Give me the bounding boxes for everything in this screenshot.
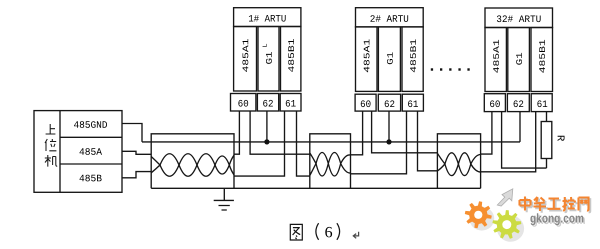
watermark arrow	[497, 189, 513, 206]
watermark text gkong.com	[530, 213, 583, 225]
text terminal 60 (ARTU2)	[361, 100, 371, 107]
caption （6）	[316, 223, 340, 240]
ARTU32 pin 60 left wire	[481, 112, 492, 155]
text terminal 62 (ARTU32)	[514, 100, 524, 107]
ellipsis dots between ARTU2 and ARTU32	[431, 68, 470, 70]
watermark text shadow 中华工控网	[521, 198, 590, 213]
wire shield bus bottom	[151, 187, 480, 189]
text header 2# ARTU	[370, 15, 408, 22]
vertical text 位 (host)	[45, 139, 56, 151]
caption return mark	[353, 232, 358, 239]
ARTU32 label cell 485B1	[531, 28, 553, 92]
watermark text 网	[579, 198, 589, 211]
ARTU2 pin 60 right wire A bus out	[372, 111, 438, 153]
ARTU2 terminal cell 60	[355, 94, 376, 111]
text 485B	[79, 175, 101, 182]
node junction dot ARTU2 62/GND	[386, 139, 391, 144]
text header 32# ARTU	[497, 15, 541, 22]
ARTU2 pin 61 right wire B bus out	[418, 111, 438, 171]
node junction dot ARTU1 62/GND	[264, 139, 269, 144]
text terminal 61 (ARTU1)	[286, 100, 296, 107]
watermark group	[465, 189, 590, 242]
watermark text 控	[563, 197, 576, 210]
host computer divider column	[59, 111, 61, 193]
twisted pair cable 3	[437, 153, 480, 164]
wire 485B feed	[122, 172, 151, 178]
watermark shadow blobs	[469, 207, 524, 242]
twisted pair cable 1	[151, 154, 234, 165]
ARTU32 pin 61 right wire to resistor top	[546, 112, 548, 122]
text header 1# ARTU	[249, 15, 286, 22]
host computer cell divider 485GND/485A	[60, 136, 122, 138]
text terminal 60 (ARTU32)	[490, 100, 500, 107]
ARTU32 terminal cell 61	[531, 94, 552, 112]
ARTU1 pin 61 left wire B bus in	[234, 111, 285, 176]
watermark text 工	[548, 199, 561, 209]
resistor R body	[541, 122, 552, 159]
ARTU32 terminal cell 60	[484, 94, 505, 112]
resistor R bottom stem	[546, 159, 548, 169]
ARTU32 pin 60 right wire to resistor	[502, 112, 547, 169]
ARTU2 pin 61 left wire B bus in	[351, 111, 407, 174]
ARTU32 pin 62 wire	[519, 112, 521, 142]
ARTU1 label cell 485A1	[234, 27, 257, 92]
rotated label G1 (ARTU2)	[387, 52, 393, 64]
ARTU32 terminal cell 62	[507, 94, 529, 112]
ARTU32 label cell 485A1	[485, 28, 506, 92]
shield box cable 2	[310, 134, 351, 189]
ARTU32 pin 61 left wire B bus in	[481, 112, 536, 172]
text terminal 60 (ARTU1)	[238, 100, 248, 107]
shield box cable 1	[151, 134, 234, 189]
ARTU32 header box	[485, 8, 553, 28]
ARTU2 pin 60 left wire	[351, 111, 363, 155]
ARTU2 label cell 485B1	[402, 27, 423, 92]
rotated label 485A1 (ARTU32)	[493, 40, 499, 73]
text terminal 61 (ARTU2)	[408, 100, 418, 107]
ground symbol	[214, 188, 234, 210]
ARTU1 pin 61 right wire B bus out	[297, 111, 310, 176]
wire 485A feed	[122, 151, 151, 154]
ARTU2 terminal cell 61	[402, 94, 423, 111]
text terminal 62 (ARTU1)	[263, 100, 273, 107]
host computer box 上位机 outer	[34, 111, 122, 193]
ARTU1 label cell G1	[258, 27, 279, 92]
twisted pair cable 2	[310, 153, 351, 164]
caption 图 (figure)	[290, 224, 302, 240]
text terminal 62 (ARTU2)	[385, 100, 395, 107]
ARTU2 header box	[356, 8, 424, 27]
ARTU1 terminal cell 60	[231, 94, 256, 112]
rotated label 485A1 (ARTU1)	[242, 39, 248, 72]
watermark text shadow gkong.com	[532, 215, 585, 227]
ARTU1 pin 60 left wire	[234, 111, 239, 154]
ARTU1 header box	[234, 8, 301, 27]
ARTU1 pin 60 right wire A bus out	[250, 111, 310, 154]
wire 485GND feed	[122, 124, 142, 142]
rotated label R (resistor)	[558, 136, 565, 141]
ARTU1 pin 62 wire	[266, 111, 268, 142]
watermark text 中	[520, 197, 531, 211]
host computer cell divider 485A/485B	[60, 163, 122, 165]
watermark green gear	[492, 210, 521, 239]
vertical text 上 (host)	[46, 124, 56, 134]
text 485A	[79, 148, 102, 155]
rotated label 485B1 (ARTU32)	[539, 40, 545, 73]
rotated label G1 superscript L (ARTU1)	[263, 44, 267, 47]
rotated label G1 (ARTU1)	[266, 52, 272, 64]
ARTU2 label cell 485A1	[356, 27, 378, 92]
wire GND bus	[142, 141, 520, 143]
ARTU1 terminal cell 61	[280, 94, 301, 112]
watermark orange gear	[465, 201, 492, 228]
ARTU2 pin 62 wire	[388, 111, 390, 142]
ARTU2 label cell G1	[378, 27, 400, 92]
rotated label 485B1 (ARTU1)	[288, 39, 294, 72]
vertical text 机 (host)	[45, 155, 57, 167]
text terminal 61 (ARTU32)	[537, 100, 547, 107]
ARTU1 label cell 485B1	[281, 27, 301, 92]
watermark text 华	[534, 197, 547, 211]
ARTU2 terminal cell 62	[378, 94, 400, 111]
rotated label 485B1 (ARTU2)	[410, 39, 416, 72]
text 485GND	[74, 121, 107, 128]
shield box cable 3	[437, 134, 480, 189]
ARTU32 label cell G1	[508, 28, 530, 92]
rotated label 485A1 (ARTU2)	[364, 39, 370, 72]
ARTU1 terminal cell 62	[257, 94, 278, 112]
rotated label G1 (ARTU32)	[516, 53, 522, 65]
